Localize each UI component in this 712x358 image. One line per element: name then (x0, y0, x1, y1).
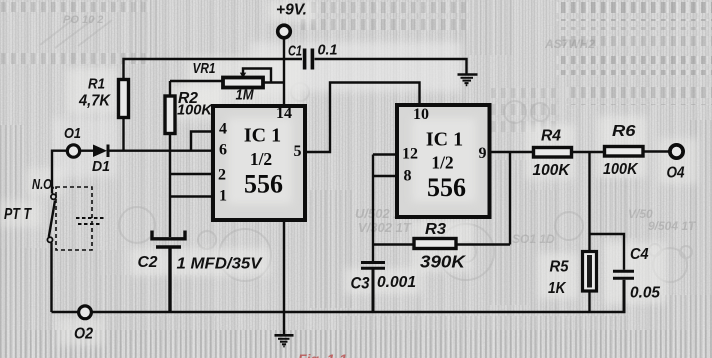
svg-text:D1: D1 (92, 158, 110, 175)
wire pin 8 stub (373, 175, 397, 177)
svg-text:1/2: 1/2 (250, 149, 272, 169)
svg-text:4: 4 (219, 121, 227, 138)
svg-text:556: 556 (244, 170, 283, 199)
wire R3 right vertical to pin 9 node (509, 152, 511, 245)
IC U1a inner halo (228, 118, 292, 204)
terminal O1 (67, 145, 79, 157)
svg-text:100K: 100K (177, 102, 213, 119)
svg-text:8: 8 (404, 168, 412, 185)
svg-text:O4: O4 (667, 165, 685, 182)
diode D1 (93, 145, 110, 158)
capacitor C4 (613, 271, 634, 312)
dashed capacitor inside PTT (76, 218, 104, 224)
svg-text:R5: R5 (550, 259, 570, 276)
capacitor C3 (361, 263, 385, 313)
svg-text:C2: C2 (138, 254, 158, 271)
resistor R6 (605, 147, 644, 157)
svg-text:VR1: VR1 (193, 60, 216, 77)
switch PTT (47, 194, 56, 312)
svg-text:4,7K: 4,7K (78, 93, 111, 110)
resistor R5 (583, 252, 597, 313)
wire R6 to O4 (643, 150, 670, 152)
wire R4 to R6 (572, 151, 605, 153)
wire pin 4 loop (191, 132, 213, 151)
svg-text:10: 10 (413, 106, 429, 123)
svg-text:0.1: 0.1 (318, 42, 338, 59)
svg-text:2: 2 (218, 167, 226, 184)
dashed enclosure box (56, 187, 92, 250)
svg-text:0.001: 0.001 (377, 274, 416, 291)
svg-text:1 MFD/35V: 1 MFD/35V (177, 256, 263, 273)
svg-text:C3: C3 (351, 274, 370, 293)
svg-text:C4: C4 (630, 246, 649, 263)
svg-text:R3: R3 (425, 221, 446, 238)
wire pin 9 to R4 (490, 151, 534, 153)
svg-text:+9V.: +9V. (276, 2, 307, 19)
wire D1 cathode to pin 6 (110, 149, 214, 151)
resistor R1 (119, 80, 129, 152)
wire pin 2 stub (170, 173, 213, 175)
svg-text:R6: R6 (612, 123, 636, 140)
svg-text:Fig. 1-1: Fig. 1-1 (298, 351, 347, 358)
wire top bus left segment (124, 59, 303, 80)
wire +9V vertical to pin 14 (283, 38, 285, 106)
svg-text:1M: 1M (236, 87, 254, 104)
wire pin 1 stub (170, 195, 213, 197)
potentiometer VR1 (170, 69, 284, 88)
terminal +9V (278, 25, 291, 38)
svg-text:IC 1: IC 1 (426, 129, 463, 151)
svg-text:V/302 1T: V/302 1T (358, 220, 412, 235)
svg-text:5: 5 (294, 143, 302, 160)
svg-text:1: 1 (219, 188, 227, 205)
capacitor C2 (152, 231, 185, 313)
svg-text:6: 6 (219, 142, 227, 159)
bottom rail wire (52, 311, 626, 313)
resistor R3 (373, 239, 510, 249)
wire pin 5 to pin 10 loop (305, 83, 420, 153)
IC U1a box (213, 106, 305, 220)
svg-text:1K: 1K (548, 280, 567, 297)
terminal O4 (670, 145, 683, 158)
svg-text:390K: 390K (420, 252, 466, 272)
svg-text:9: 9 (479, 145, 487, 162)
capacitor C1 (303, 49, 314, 70)
svg-text:R1: R1 (88, 76, 105, 93)
resistor R2 (165, 81, 175, 151)
wire C4 branch (590, 234, 625, 270)
ground top right (458, 75, 478, 86)
wire O1 branch down to switch (52, 151, 67, 194)
svg-text:PO 10 2: PO 10 2 (63, 14, 103, 26)
svg-text:O1: O1 (64, 125, 81, 142)
resistor R4 (534, 148, 572, 158)
svg-text:100K: 100K (533, 162, 571, 179)
wire junction down to R5 (588, 152, 590, 252)
svg-text:14: 14 (276, 105, 292, 122)
svg-text:100K: 100K (603, 161, 639, 178)
terminal O2 (79, 306, 92, 319)
svg-text:0.05: 0.05 (630, 285, 660, 302)
wire O1 to D1 anode (80, 149, 93, 151)
svg-text:C1: C1 (288, 43, 302, 60)
wire pin 12 stub (373, 153, 397, 155)
wire junction vertical to C2 (169, 151, 171, 237)
IC U1b box (397, 105, 490, 217)
svg-text:556: 556 (427, 173, 466, 202)
svg-text:O2: O2 (74, 326, 93, 343)
svg-text:N.O.: N.O. (32, 177, 55, 193)
svg-text:12: 12 (402, 146, 418, 163)
svg-text:1/2: 1/2 (431, 153, 453, 173)
wire top bus right segment (315, 59, 467, 74)
ground bottom (275, 335, 294, 346)
wire vertical pins 12/8 down to C3 (372, 155, 374, 262)
svg-text:PT T: PT T (4, 206, 32, 223)
wire IC1a ground drop (283, 220, 285, 335)
IC U1b inner halo (412, 118, 476, 202)
svg-text:R4: R4 (541, 128, 561, 145)
svg-text:IC 1: IC 1 (244, 125, 281, 147)
